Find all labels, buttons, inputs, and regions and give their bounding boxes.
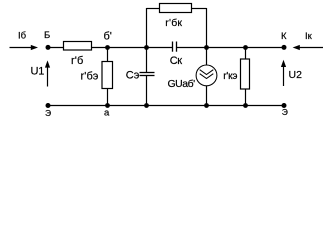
svg-text:Iк: Iк [305, 31, 313, 42]
node E left dot [46, 103, 51, 108]
node E right dot [282, 103, 287, 108]
wire current source bottom to rail [206, 86, 208, 106]
junction dot r'ke bottom [243, 103, 248, 108]
resistor r'bk [160, 4, 192, 13]
node a dot [105, 103, 110, 108]
svg-text:Э: Э [282, 107, 288, 117]
arrow U1 [45, 60, 50, 86]
node b' dot [105, 45, 110, 50]
capacitor Ck plates [173, 42, 177, 52]
svg-text:К: К [281, 31, 287, 42]
svg-text:б': б' [104, 31, 112, 43]
svg-text:r'б: r'б [71, 55, 83, 67]
arrow Ib [10, 45, 39, 50]
wire top loop horizontal right [192, 8, 207, 10]
junction dot source bottom [204, 103, 209, 108]
junction dot r'ke top [243, 45, 248, 50]
wire bottom rail [48, 105, 284, 107]
wire to current source top [206, 48, 208, 66]
svg-text:r'кэ: r'кэ [223, 71, 237, 82]
wire r'ke bottom to rail [245, 89, 247, 106]
svg-text:GUаб': GUаб' [168, 78, 196, 90]
svg-text:Ск: Ск [170, 55, 182, 67]
svg-text:Э: Э [45, 108, 51, 118]
node K dot [282, 45, 287, 50]
capacitor Ce plates [140, 73, 155, 76]
svg-text:r'бк: r'бк [165, 17, 182, 29]
wire r'be to node a [107, 89, 109, 106]
node B dot [46, 45, 51, 50]
current source chevrons [200, 70, 214, 79]
arrow Ik [293, 45, 323, 50]
wire down to Ce top plate [146, 48, 148, 73]
resistor r'ke [241, 59, 250, 89]
wire main horizontal left of Ck [48, 47, 173, 49]
svg-text:а: а [104, 108, 110, 119]
resistor r'b [64, 42, 92, 51]
svg-text:U1: U1 [31, 66, 45, 78]
junction dot loop left [144, 45, 149, 50]
wire main horizontal right of Ck [177, 47, 285, 49]
arrow U2 [281, 60, 286, 86]
svg-text:Б: Б [44, 30, 50, 41]
junction dot loop right [204, 45, 209, 50]
wire top loop horizontal left [147, 8, 160, 10]
wire top loop vertical left [146, 8, 148, 48]
wire top loop vertical right [206, 8, 208, 48]
wire to r'ke top [245, 48, 247, 60]
svg-text:U2: U2 [289, 69, 303, 81]
junction dot Ce bottom [144, 103, 149, 108]
svg-text:Сэ: Сэ [126, 70, 140, 82]
wire b' down to r'be [107, 48, 109, 63]
wire Ce bottom plate to rail [146, 76, 148, 106]
resistor r'be [102, 62, 113, 89]
svg-text:r'бэ: r'бэ [81, 71, 99, 83]
svg-text:Iб: Iб [18, 31, 27, 42]
current source GUab' circle [196, 65, 217, 86]
